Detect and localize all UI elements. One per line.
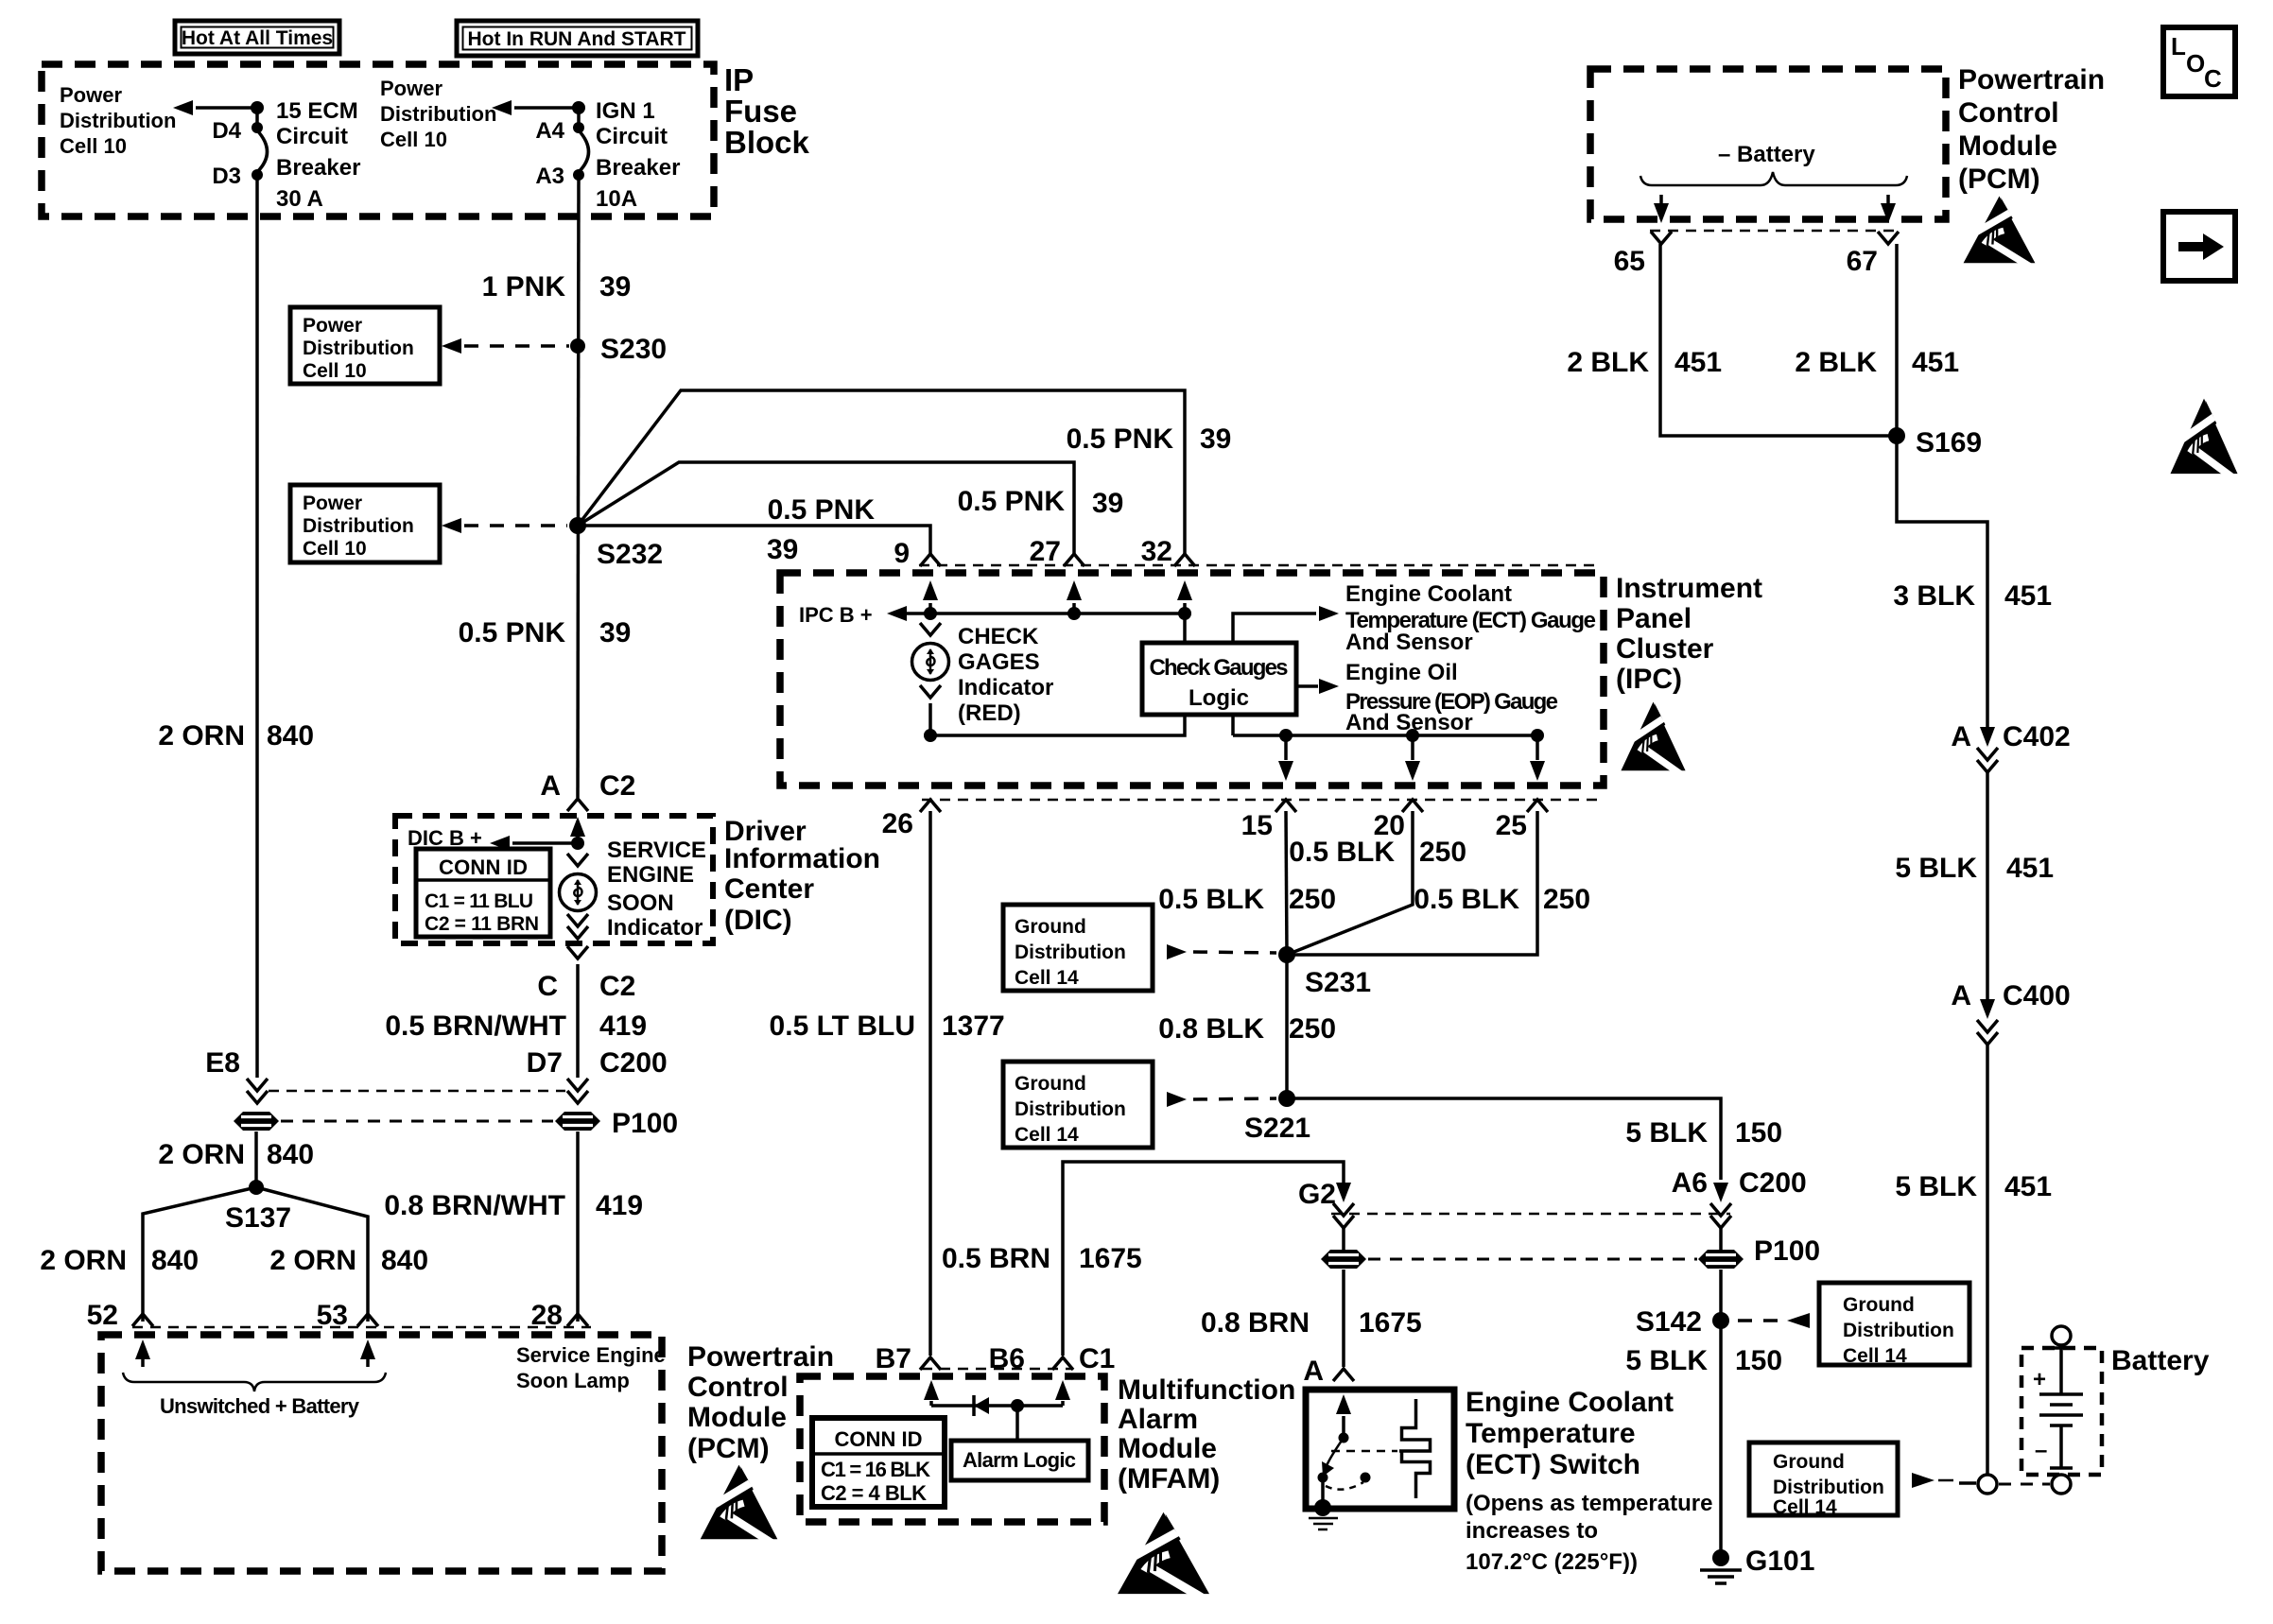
wire: IGN1 breaker A3 down to DIC connector bbox=[578, 175, 579, 798]
svg-text:C402: C402 bbox=[2003, 721, 2071, 752]
svg-text:250: 250 bbox=[1419, 837, 1466, 868]
ECT pin A chevron bbox=[1333, 1369, 1354, 1381]
wire: pin 65 down and across to S169 bbox=[1660, 244, 1897, 436]
svg-text:A: A bbox=[540, 770, 561, 802]
wire label 0.8 BLK 250 bbox=[1158, 1013, 1336, 1045]
svg-text:Power: Power bbox=[303, 492, 362, 514]
wire: MFAM internal bus bbox=[931, 1404, 1063, 1408]
svg-text:0.5 BLK: 0.5 BLK bbox=[1158, 884, 1264, 915]
pin B6 / C1 labels bbox=[989, 1343, 1116, 1374]
power distribution cell 10 box (S230) bbox=[290, 307, 440, 384]
chevron below DIC box (pin C) bbox=[567, 946, 588, 959]
battery negative terminal circle bbox=[2052, 1475, 2071, 1494]
svg-text:39: 39 bbox=[767, 534, 798, 565]
svg-text:0.5 PNK: 0.5 PNK bbox=[1067, 423, 1174, 455]
svg-text:Battery: Battery bbox=[2111, 1345, 2210, 1376]
continuation arrow box bbox=[2163, 212, 2235, 281]
svg-text:67: 67 bbox=[1847, 246, 1878, 277]
svg-text:0.8 BRN/WHT: 0.8 BRN/WHT bbox=[384, 1190, 565, 1221]
svg-text:27: 27 bbox=[1030, 536, 1061, 567]
svg-text:And Sensor: And Sensor bbox=[1345, 630, 1473, 655]
arrow down inside PCM at pin 65 bbox=[1654, 195, 1669, 223]
svg-text:SERVICE: SERVICE bbox=[607, 838, 706, 863]
ECT switch box bbox=[1306, 1390, 1454, 1509]
CONN ID table (MFAM) bbox=[812, 1418, 945, 1507]
P100 grommet (ECT wire) bbox=[1321, 1250, 1366, 1269]
double chevron below lamp bbox=[567, 914, 588, 939]
wire label 0.5 BLK 250 (pin 15) bbox=[1158, 884, 1336, 915]
svg-text:(PCM): (PCM) bbox=[687, 1433, 770, 1464]
svg-text:5 BLK: 5 BLK bbox=[1895, 1171, 1977, 1202]
svg-text:G101: G101 bbox=[1745, 1546, 1814, 1577]
svg-text:26: 26 bbox=[882, 808, 913, 839]
wire label 0.8 BRN 1675 bbox=[1201, 1307, 1422, 1339]
svg-text:A3: A3 bbox=[535, 164, 564, 189]
wire: S221 across to A6 drop bbox=[1287, 1098, 1721, 1180]
svg-text:0.5 PNK: 0.5 PNK bbox=[768, 494, 876, 526]
svg-text:Power: Power bbox=[380, 77, 442, 100]
15 ECM circuit breaker label bbox=[276, 98, 360, 212]
svg-text:419: 419 bbox=[596, 1190, 643, 1221]
svg-text:52: 52 bbox=[87, 1300, 118, 1331]
svg-text:107.2°C (225°F)): 107.2°C (225°F)) bbox=[1466, 1549, 1638, 1575]
wire: lamp down to logic bus bbox=[928, 703, 932, 735]
P100 dashed line (bottom) bbox=[1368, 1258, 1697, 1261]
Driver Information Center (DIC) label bbox=[724, 816, 880, 936]
switch fixed contact (closed) bbox=[1318, 1473, 1328, 1483]
svg-text:15: 15 bbox=[1241, 810, 1273, 841]
case ground dot bbox=[1314, 1499, 1331, 1516]
node: B+ at pin 9 wire bbox=[924, 607, 937, 620]
svg-text:451: 451 bbox=[1912, 347, 1959, 378]
connector C200 chevrons at D7 bbox=[567, 1079, 588, 1103]
svg-text:451: 451 bbox=[2004, 1171, 2052, 1202]
svg-text:Logic: Logic bbox=[1189, 685, 1249, 711]
svg-text:S221: S221 bbox=[1244, 1113, 1310, 1144]
wire label 2 BLK 451 (pin 65) bbox=[1567, 347, 1722, 378]
svg-text:S137: S137 bbox=[225, 1202, 291, 1234]
svg-text:CHECK: CHECK bbox=[958, 624, 1039, 649]
dashed reference from S142 to cell 14 bbox=[1738, 1313, 1810, 1328]
svg-text:0.5 PNK: 0.5 PNK bbox=[459, 617, 566, 648]
svg-text:1675: 1675 bbox=[1079, 1243, 1142, 1274]
connector C200 dashed line (left) bbox=[269, 1090, 565, 1093]
switch blade with arrow bbox=[1326, 1438, 1344, 1468]
node: IGN1 breaker feed junction bbox=[572, 101, 585, 114]
label box "Hot In RUN And START" bbox=[457, 21, 698, 56]
wire: G2 to P100 bbox=[1342, 1227, 1345, 1250]
Engine Coolant Temperature (ECT) Switch label bbox=[1466, 1387, 1674, 1480]
arrow up into DIC from pin A bbox=[570, 817, 585, 843]
svg-text:25: 25 bbox=[1496, 810, 1527, 841]
svg-text:Cell 14: Cell 14 bbox=[1773, 1496, 1837, 1518]
IPC dashed box bbox=[780, 573, 1604, 786]
IGN 1 circuit breaker label bbox=[596, 98, 680, 212]
switch pivot contact bbox=[1339, 1433, 1349, 1443]
ground G101 bbox=[1700, 1546, 1814, 1583]
arrow to EOP gauge bbox=[1296, 679, 1339, 694]
thermal element bbox=[1399, 1399, 1431, 1498]
svg-text:Ground: Ground bbox=[1015, 1073, 1086, 1095]
svg-text:A6: A6 bbox=[1672, 1167, 1708, 1199]
power distribution reference text (right) bbox=[380, 77, 496, 151]
arrow up inside MFAM at B6 bbox=[1055, 1380, 1070, 1406]
pin 15 chevron bbox=[1275, 800, 1296, 812]
wire: S232 branch to IPC pin 32 bbox=[578, 390, 1185, 555]
svg-text:30 A: 30 A bbox=[276, 186, 323, 212]
pin A6 / C200 labels bbox=[1672, 1167, 1807, 1199]
svg-text:2 ORN: 2 ORN bbox=[158, 1139, 245, 1170]
svg-text:Indicator: Indicator bbox=[607, 915, 703, 941]
svg-text:+: + bbox=[2033, 1367, 2046, 1392]
P100 grommet (DIC wire) bbox=[555, 1112, 600, 1131]
wire: C400 down to ground circle bbox=[1986, 1044, 1989, 1474]
svg-text:0.5 BLK: 0.5 BLK bbox=[1414, 884, 1519, 915]
alarm logic box bbox=[951, 1441, 1088, 1480]
svg-text:D4: D4 bbox=[212, 118, 241, 144]
node: ECM breaker feed junction bbox=[251, 101, 264, 114]
pin 25 chevron bbox=[1527, 800, 1548, 812]
battery cell symbol bbox=[2039, 1348, 2083, 1468]
svg-text:32: 32 bbox=[1141, 536, 1172, 567]
svg-text:Distribution: Distribution bbox=[1015, 1098, 1126, 1120]
svg-text:65: 65 bbox=[1614, 246, 1645, 277]
svg-text:Power: Power bbox=[60, 83, 122, 107]
ESD symbol (IPC) bbox=[1621, 702, 1687, 779]
Engine Coolant Temperature (ECT) Gauge And Sensor label bbox=[1345, 581, 1596, 655]
svg-text:P100: P100 bbox=[612, 1108, 678, 1139]
svg-text:O: O bbox=[2186, 49, 2205, 78]
svg-text:Circuit: Circuit bbox=[276, 124, 348, 149]
svg-text:Service Engine: Service Engine bbox=[516, 1343, 666, 1367]
node: ground bus pin 15 bbox=[1279, 729, 1293, 742]
wire label 5 BLK 150 bbox=[1625, 1117, 1782, 1149]
svg-text:Distribution: Distribution bbox=[1773, 1477, 1884, 1498]
PCM dashed box (bottom left) bbox=[101, 1335, 662, 1571]
splice S221 bbox=[1244, 1090, 1310, 1144]
svg-text:S231: S231 bbox=[1305, 967, 1371, 998]
svg-text:C200: C200 bbox=[1739, 1167, 1807, 1199]
ESD symbol (PCM bottom) bbox=[701, 1465, 779, 1547]
wire label 5 BLK 451 (upper) bbox=[1895, 853, 2054, 884]
wire label 0.5 BRN/WHT 419 bbox=[385, 1011, 647, 1042]
svg-text:Distribution: Distribution bbox=[303, 337, 414, 359]
node: ground bus pin 20 bbox=[1406, 729, 1419, 742]
wire label 0.5 PNK 39 (pin 32 branch) bbox=[1067, 423, 1232, 455]
svg-text:0.8 BLK: 0.8 BLK bbox=[1158, 1013, 1264, 1045]
arrow up into IPC at pin 27 bbox=[1067, 580, 1082, 613]
C200 arrow down at A6 bbox=[1710, 1183, 1731, 1228]
svg-text:451: 451 bbox=[2006, 853, 2054, 884]
node: lamp-logic junction bbox=[924, 729, 937, 742]
brace: unswitched battery pins bbox=[123, 1373, 386, 1391]
chevron above check gages lamp bbox=[920, 623, 941, 635]
ground distribution cell 14 box (battery side) bbox=[1749, 1443, 1898, 1518]
svg-text:9: 9 bbox=[894, 538, 910, 569]
svg-text:Distribution: Distribution bbox=[303, 515, 414, 537]
wire: S232 branch to IPC pin 9 bbox=[578, 526, 930, 555]
node: B+ at pin 27 wire bbox=[1067, 607, 1081, 620]
svg-text:Information: Information bbox=[724, 843, 880, 874]
PCM pin 52 chevron bbox=[132, 1314, 153, 1326]
svg-text:IPC B +: IPC B + bbox=[799, 603, 873, 627]
svg-text:5 BLK: 5 BLK bbox=[1895, 853, 1977, 884]
svg-text:B7: B7 bbox=[876, 1343, 911, 1374]
diode in MFAM bbox=[974, 1395, 989, 1416]
svg-text:Multifunction: Multifunction bbox=[1118, 1374, 1295, 1406]
wire: P100 down to S137 bbox=[254, 1132, 258, 1187]
svg-text:A: A bbox=[1951, 980, 1971, 1011]
svg-text:IGN 1: IGN 1 bbox=[596, 98, 655, 124]
svg-text:S169: S169 bbox=[1916, 427, 1982, 458]
PCM pin 28 chevron bbox=[567, 1314, 588, 1326]
svg-text:Panel: Panel bbox=[1616, 603, 1692, 634]
dashed reference from S230 to cell 10 bbox=[442, 338, 569, 354]
wire label 2 ORN 840 (pin 52) bbox=[40, 1245, 199, 1276]
svg-text:C2 = 4 BLK: C2 = 4 BLK bbox=[821, 1481, 927, 1505]
svg-text:250: 250 bbox=[1289, 884, 1336, 915]
wire: check gauges logic top pin to B+ bbox=[1183, 613, 1187, 643]
label box "Hot At All Times" bbox=[175, 21, 339, 54]
svg-text:CONN ID: CONN ID bbox=[835, 1427, 923, 1451]
svg-text:S142: S142 bbox=[1636, 1306, 1702, 1338]
svg-text:S230: S230 bbox=[600, 334, 667, 365]
connector C400 arrow and chevrons bbox=[1977, 999, 1998, 1045]
svg-text:Alarm Logic: Alarm Logic bbox=[963, 1448, 1076, 1472]
svg-text:(ECT) Switch: (ECT) Switch bbox=[1466, 1449, 1640, 1480]
svg-text:Cell 14: Cell 14 bbox=[1843, 1345, 1907, 1367]
arrow to power distribution cell 10 (left) bbox=[173, 100, 257, 115]
arrow up inside ECT at pin A bbox=[1336, 1394, 1351, 1433]
svg-text:Fuse: Fuse bbox=[724, 94, 797, 129]
svg-text:CONN ID: CONN ID bbox=[439, 855, 528, 879]
svg-text:(MFAM): (MFAM) bbox=[1118, 1463, 1220, 1494]
node: B+ at pin 32 wire bbox=[1178, 607, 1191, 620]
wire label 2 BLK 451 (pin 67) bbox=[1795, 347, 1959, 378]
svg-text:840: 840 bbox=[267, 1139, 314, 1170]
MFAM connector dashed line bbox=[922, 1368, 1073, 1371]
arrow up inside MFAM at B7 bbox=[924, 1380, 939, 1406]
svg-text:C1 = 16 BLK: C1 = 16 BLK bbox=[821, 1458, 930, 1481]
wire label 0.5 BLK 250 (pin 25) bbox=[1414, 884, 1590, 915]
svg-text:increases to: increases to bbox=[1466, 1518, 1598, 1544]
Powertrain Control Module (PCM) label (top) bbox=[1958, 64, 2105, 195]
svg-text:Powertrain: Powertrain bbox=[687, 1341, 834, 1373]
splice S232 bbox=[569, 517, 663, 570]
arrow to ECT gauge bbox=[1233, 606, 1339, 643]
svg-text:Power: Power bbox=[303, 315, 362, 337]
P100 grommet (left wire) bbox=[234, 1112, 279, 1131]
pin 9 connector chevron bbox=[920, 554, 941, 566]
svg-text:840: 840 bbox=[267, 720, 314, 752]
DIC B+ arrow bbox=[408, 826, 578, 851]
svg-text:Indicator: Indicator bbox=[958, 675, 1053, 700]
IPC B+ arrow bbox=[887, 606, 907, 621]
dashed travel arc bbox=[1326, 1482, 1363, 1490]
splice S231 bbox=[1278, 946, 1371, 998]
svg-text:Cell 10: Cell 10 bbox=[380, 128, 447, 151]
wire label 3 BLK 451 bbox=[1893, 580, 2052, 612]
svg-text:C: C bbox=[2204, 64, 2222, 93]
wire: pin 20 down and diagonal to S231 bbox=[1287, 811, 1413, 955]
svg-text:451: 451 bbox=[1674, 347, 1722, 378]
IPC internal ground bus wire bbox=[1233, 734, 1537, 737]
svg-text:1377: 1377 bbox=[942, 1011, 1005, 1042]
svg-text:150: 150 bbox=[1735, 1117, 1782, 1149]
wire: C402 to C400 bbox=[1986, 771, 1989, 1000]
pin 26 chevron bbox=[920, 800, 941, 812]
svg-text:1675: 1675 bbox=[1359, 1307, 1422, 1339]
wire label 5 BLK 451 (lower) bbox=[1895, 1171, 2052, 1202]
chassis ground open circle bbox=[1978, 1475, 1997, 1494]
svg-text:39: 39 bbox=[1200, 423, 1231, 455]
MFAM dashed box bbox=[800, 1376, 1104, 1522]
pin 32 connector chevron bbox=[1174, 554, 1195, 566]
wire label 0.8 BRN/WHT 419 bbox=[384, 1190, 643, 1221]
svg-text:Distribution: Distribution bbox=[60, 109, 176, 132]
wire: MFAM B6 up and across to ECT drop bbox=[1063, 1162, 1344, 1356]
PCM bottom connector dashed line bbox=[132, 1326, 591, 1329]
svg-text:2 ORN: 2 ORN bbox=[269, 1245, 356, 1276]
svg-text:Control: Control bbox=[687, 1372, 789, 1403]
svg-text:2 BLK: 2 BLK bbox=[1795, 347, 1877, 378]
pin D7 / C200 labels bbox=[527, 1047, 668, 1079]
wire: A6 to P100 bbox=[1719, 1227, 1723, 1250]
battery positive terminal circle bbox=[2052, 1326, 2071, 1345]
svg-text:39: 39 bbox=[1092, 488, 1123, 519]
wire: logic bottom pin to ground bus bbox=[1231, 715, 1235, 735]
svg-text:C2: C2 bbox=[599, 770, 635, 802]
svg-text:Cell 10: Cell 10 bbox=[303, 360, 367, 382]
svg-text:Circuit: Circuit bbox=[596, 124, 668, 149]
svg-text:2 BLK: 2 BLK bbox=[1567, 347, 1649, 378]
wire: DIC side down to PCM pin 28 bbox=[576, 1132, 580, 1322]
svg-text:ENGINE: ENGINE bbox=[607, 862, 694, 888]
svg-text:Module: Module bbox=[1118, 1433, 1217, 1464]
svg-text:Instrument: Instrument bbox=[1616, 573, 1762, 604]
wire label 2 ORN 840 (above P100) bbox=[158, 720, 314, 752]
svg-text:Center: Center bbox=[724, 873, 814, 905]
Multifunction Alarm Module (MFAM) label bbox=[1118, 1374, 1295, 1494]
brace: battery pins 65/67 bbox=[1640, 172, 1907, 185]
ground distribution cell 14 box (S221) bbox=[1003, 1062, 1153, 1148]
IP fuse block dashed box bbox=[42, 64, 714, 216]
wire label 0.5 PNK 39 (pin 27 branch) bbox=[958, 486, 1124, 519]
switch alternate contact (open) bbox=[1361, 1473, 1371, 1483]
MFAM pin B7 chevron bbox=[920, 1357, 941, 1370]
IPC bottom connector dashed line bbox=[922, 799, 1598, 802]
svg-text:Alarm: Alarm bbox=[1118, 1404, 1198, 1435]
wire: DIC pin C down to C200 connector bbox=[576, 964, 580, 1078]
svg-text:5 BLK: 5 BLK bbox=[1625, 1345, 1708, 1376]
wire label 0.5 BRN 1675 bbox=[942, 1243, 1142, 1274]
pin A / C400 labels bbox=[1951, 980, 2070, 1011]
ESD symbol (PCM top) bbox=[1964, 196, 2037, 270]
node: DIC B+ junction bbox=[571, 837, 584, 850]
svg-text:D3: D3 bbox=[212, 164, 241, 189]
svg-text:Distribution: Distribution bbox=[1015, 942, 1126, 963]
check gages indicator lamp bbox=[912, 644, 949, 681]
wire: pin 67 down to S169 bbox=[1895, 244, 1899, 436]
svg-text:39: 39 bbox=[599, 271, 631, 302]
svg-text:Powertrain: Powertrain bbox=[1958, 64, 2105, 95]
svg-text:0.5 PNK: 0.5 PNK bbox=[958, 486, 1066, 517]
svg-text:2 ORN: 2 ORN bbox=[40, 1245, 127, 1276]
svg-text:C400: C400 bbox=[2003, 980, 2071, 1011]
PCM pin 53 chevron bbox=[357, 1314, 378, 1326]
chevron below check gages lamp bbox=[920, 685, 941, 698]
svg-text:Engine Coolant: Engine Coolant bbox=[1466, 1387, 1674, 1418]
svg-text:C1 = 11 BLU: C1 = 11 BLU bbox=[425, 890, 533, 912]
PCM top connector dashed line bbox=[1650, 230, 1899, 233]
ECT switch note bbox=[1466, 1491, 1712, 1575]
svg-text:250: 250 bbox=[1543, 884, 1590, 915]
arrow down to pin 25 bbox=[1530, 735, 1545, 781]
svg-text:Block: Block bbox=[724, 125, 810, 160]
service engine soon indicator lamp bbox=[560, 874, 597, 911]
svg-text:Hot In RUN And START: Hot In RUN And START bbox=[468, 28, 686, 50]
dashed reference from cell 14 to S221 bbox=[1167, 1092, 1276, 1107]
wire label 0.5 LT BLU 1377 bbox=[770, 1011, 1005, 1042]
check gauges logic box bbox=[1142, 643, 1296, 715]
svg-text:(Opens as temperature: (Opens as temperature bbox=[1466, 1491, 1712, 1516]
svg-text:150: 150 bbox=[1735, 1345, 1782, 1376]
node: alarm logic tap bbox=[1011, 1399, 1024, 1412]
svg-text:5 BLK: 5 BLK bbox=[1625, 1117, 1708, 1149]
CONN ID table (DIC) bbox=[416, 849, 550, 937]
svg-text:G2: G2 bbox=[1298, 1179, 1336, 1210]
case ground symbol bbox=[1309, 1518, 1338, 1529]
CHECK GAGES Indicator (RED) label bbox=[958, 624, 1053, 726]
svg-text:2 ORN: 2 ORN bbox=[158, 720, 245, 752]
connector C402 arrow and chevrons bbox=[1977, 727, 1998, 772]
svg-text:P100: P100 bbox=[1754, 1235, 1820, 1267]
svg-text:Module: Module bbox=[687, 1402, 787, 1433]
svg-text:C2: C2 bbox=[599, 971, 635, 1002]
wire: pin 25 down and across to S231 bbox=[1287, 811, 1537, 955]
svg-text:250: 250 bbox=[1289, 1013, 1336, 1045]
wire: S137 to PCM pin 53 bbox=[256, 1187, 368, 1322]
svg-text:Ground: Ground bbox=[1015, 916, 1086, 938]
pin A / C2 labels at DIC bbox=[540, 770, 635, 802]
arrow up inside PCM at pin 53 bbox=[360, 1339, 375, 1367]
power distribution cell 10 box (S232) bbox=[290, 485, 440, 562]
svg-text:Breaker: Breaker bbox=[596, 155, 680, 181]
svg-text:15 ECM: 15 ECM bbox=[276, 98, 358, 124]
IPC B+ bus wire bbox=[904, 612, 1185, 615]
dashed link to battery negative bbox=[1999, 1483, 2050, 1486]
wire label 1 PNK 39 bbox=[482, 271, 632, 302]
IP fuse block name label bbox=[724, 62, 810, 160]
svg-text:3 BLK: 3 BLK bbox=[1893, 580, 1975, 612]
svg-text:Ground: Ground bbox=[1843, 1294, 1915, 1316]
wire: ECM breaker D3 down the left column bbox=[255, 175, 259, 1078]
wire label 2 ORN 840 (below P100) bbox=[158, 1139, 314, 1170]
svg-text:Distribution: Distribution bbox=[380, 102, 496, 126]
svg-text:Cell 10: Cell 10 bbox=[303, 538, 367, 560]
SERVICE ENGINE SOON indicator label bbox=[607, 838, 706, 941]
svg-text:840: 840 bbox=[151, 1245, 199, 1276]
svg-text:C: C bbox=[537, 971, 558, 1002]
P100 grommet (ground wire) bbox=[1698, 1250, 1744, 1269]
arrow down inside PCM at pin 67 bbox=[1881, 195, 1896, 223]
svg-text:IP: IP bbox=[724, 62, 754, 97]
pin 27 connector chevron bbox=[1064, 554, 1084, 566]
svg-text:Unswitched + Battery: Unswitched + Battery bbox=[160, 1394, 360, 1418]
ground distribution cell 14 box (S142) bbox=[1819, 1283, 1969, 1367]
svg-text:A4: A4 bbox=[535, 118, 564, 144]
wire: S169 down and jog right bbox=[1897, 436, 1987, 728]
